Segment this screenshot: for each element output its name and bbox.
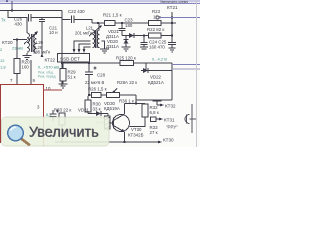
block SSB-DET xyxy=(58,54,90,63)
resistor R21 xyxy=(105,21,116,26)
test point KT30 xyxy=(158,141,162,144)
resistor R26 xyxy=(92,93,102,98)
diode VD20 xyxy=(125,36,127,48)
IC block outline red xyxy=(0,84,44,86)
resistor R23 xyxy=(149,21,162,26)
test point KT22 xyxy=(41,54,44,58)
ground C25 xyxy=(169,47,176,49)
capacitor C25 xyxy=(171,34,173,36)
wire collector row xyxy=(125,103,146,105)
wire right bus x192 xyxy=(191,104,193,133)
variable core arrow L21 xyxy=(89,26,101,36)
svg-text:R28А 22 к: R28А 22 к xyxy=(117,80,137,85)
svg-text:КТ21: КТ21 xyxy=(167,5,178,10)
transistor VT30 xyxy=(113,115,130,132)
node KT21 blue wire junction xyxy=(171,16,173,18)
svg-text:Увеличить: Увеличить xyxy=(29,125,99,141)
variable core arrow L20 xyxy=(24,32,37,44)
svg-text:1,8: 1,8 xyxy=(0,65,6,70)
svg-text:R21 1,5 к: R21 1,5 к xyxy=(103,13,122,18)
svg-text:"РРУ": "РРУ" xyxy=(166,125,178,130)
wire VD22 branch box xyxy=(145,63,147,71)
svg-text:51 к: 51 к xyxy=(68,75,76,80)
test point KT31 xyxy=(159,118,163,121)
svg-text:23 мВ: 23 мВ xyxy=(12,46,23,51)
svg-text:33 к: 33 к xyxy=(93,107,101,112)
svg-text:R26 1,5 к: R26 1,5 к xyxy=(88,87,107,92)
magnifier icon xyxy=(21,139,29,145)
wire R32 bottom to collector node xyxy=(130,117,146,127)
wire top dark rail xyxy=(0,10,62,12)
node C24 xyxy=(143,34,145,36)
svg-text:201 мкГн: 201 мкГн xyxy=(75,31,93,36)
ground VD20 xyxy=(122,46,131,48)
capacitor C31 small box xyxy=(151,117,157,122)
svg-text:КД521А: КД521А xyxy=(148,80,164,85)
resistor R29 xyxy=(62,63,64,69)
svg-text:C28: C28 xyxy=(97,73,106,78)
node junction at rail xyxy=(11,9,13,11)
capacitor C26 xyxy=(28,14,30,22)
top band xyxy=(0,0,200,3)
node R23 junction xyxy=(171,22,173,24)
svg-text:VD31: VD31 xyxy=(78,108,90,113)
svg-text:C22 430: C22 430 xyxy=(68,9,85,14)
node L21 top xyxy=(97,22,99,24)
svg-text:КТ22: КТ22 xyxy=(45,58,56,63)
wire C26 to C21 node xyxy=(32,17,63,19)
resistor R25 xyxy=(120,61,134,66)
capacitor C28 electrolytic xyxy=(88,62,90,64)
svg-text:R33 22 к: R33 22 к xyxy=(54,108,71,113)
svg-text:VD22: VD22 xyxy=(150,75,162,80)
node KT20 junction xyxy=(16,38,18,40)
diode VD22 xyxy=(143,68,148,73)
wire base row y95 xyxy=(89,94,136,96)
diode VD21 xyxy=(129,33,134,38)
connector XS1 xyxy=(186,115,188,124)
wire y100 xyxy=(136,99,172,101)
wire pin9 xyxy=(30,60,32,85)
svg-text:КД519А: КД519А xyxy=(104,106,120,111)
svg-text:27 к: 27 к xyxy=(150,130,158,135)
capacitor C23 xyxy=(121,22,123,24)
svg-text:КТ20: КТ20 xyxy=(2,40,13,45)
svg-text:C23: C23 xyxy=(125,18,134,23)
svg-text:R22 82 к: R22 82 к xyxy=(147,27,164,32)
ground C24 xyxy=(140,46,148,48)
wire long vertical bus x62 xyxy=(61,11,63,87)
capacitor C21 xyxy=(41,18,43,20)
svg-text:Д311А: Д311А xyxy=(106,44,119,49)
svg-text:0...+570 мВ: 0...+570 мВ xyxy=(38,65,59,70)
wire R25 row y63 xyxy=(62,62,172,64)
svg-text:R23: R23 xyxy=(152,9,161,14)
resistor R32 xyxy=(142,104,148,117)
wire diode row y35.5 xyxy=(122,35,148,37)
svg-text:12: 12 xyxy=(0,58,5,63)
ground R29 xyxy=(59,83,68,85)
svg-text:160 470: 160 470 xyxy=(149,45,165,50)
test point KT20 wire xyxy=(13,39,27,41)
wire bottom rail xyxy=(55,141,158,143)
hatch element C29 xyxy=(105,116,111,129)
svg-text:180: 180 xyxy=(125,23,133,28)
wire rail y23 xyxy=(92,22,176,24)
svg-text:430: 430 xyxy=(15,22,23,27)
svg-text:КТ32: КТ32 xyxy=(165,104,176,109)
svg-text:R36 1 к: R36 1 к xyxy=(119,99,134,104)
svg-text:22 мк×6 В: 22 мк×6 В xyxy=(85,80,104,85)
svg-text:R25 120 к: R25 120 к xyxy=(116,56,136,61)
svg-text:160: 160 xyxy=(22,65,30,70)
resistor R20 xyxy=(14,59,20,74)
wire blue y64 right xyxy=(172,64,200,66)
wires taps to SSB detector xyxy=(74,41,91,49)
svg-text:6,8 к: 6,8 к xyxy=(150,110,159,115)
resistor R30 xyxy=(87,96,89,100)
diode VD30 xyxy=(88,113,108,115)
watermark panel xyxy=(2,117,110,146)
page border right xyxy=(196,0,198,147)
wire collector xyxy=(124,104,126,115)
wire pot drop xyxy=(135,95,137,104)
arrows into SSB-DET xyxy=(73,49,76,53)
wire right vertical x172 xyxy=(171,63,173,100)
wire L21 right to ground xyxy=(102,41,105,49)
wire vertical drop from blue rail xyxy=(11,1,13,11)
wire emitter xyxy=(124,132,126,142)
capacitor C22 xyxy=(62,19,71,21)
wire gray y69 right xyxy=(172,68,200,70)
svg-text:КТ31: КТ31 xyxy=(164,118,175,123)
svg-text:SSB-DET: SSB-DET xyxy=(60,57,80,62)
svg-text:Реж. перед.: Реж. перед. xyxy=(38,75,57,79)
resistor R22 xyxy=(149,33,162,38)
svg-text:КТ342Б: КТ342Б xyxy=(128,133,144,138)
wire blue y17 xyxy=(159,17,200,19)
ground L20 xyxy=(26,53,28,56)
wire blue horizontal rail xyxy=(0,3,200,5)
capacitor C32 electrolytic xyxy=(52,110,54,114)
node top junction xyxy=(6,0,8,2)
capacitor KT32 xyxy=(156,100,158,101)
svg-text:0...4,2 В: 0...4,2 В xyxy=(152,57,167,62)
terminal circle xyxy=(156,16,159,19)
svg-text:10 н: 10 н xyxy=(49,30,58,35)
ground L21 xyxy=(100,48,109,50)
wire R20 drop xyxy=(16,40,18,59)
wire C26 branch xyxy=(8,11,28,18)
capacitor C24 xyxy=(143,36,145,43)
inductor L21 transformer xyxy=(98,23,100,30)
wire blue top edge xyxy=(0,0,200,2)
svg-text:VT30: VT30 xyxy=(131,127,142,132)
svg-text:КТ30: КТ30 xyxy=(163,138,174,143)
potentiometer R36 xyxy=(107,93,120,98)
inductor L20 transformer xyxy=(26,18,28,34)
test point KT32 xyxy=(160,104,164,107)
